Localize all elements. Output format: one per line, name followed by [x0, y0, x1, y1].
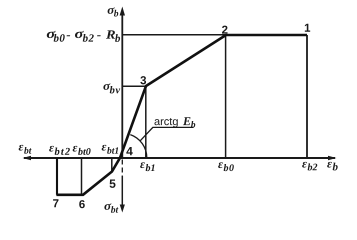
label epsilon_bt1 — [102, 145, 119, 154]
label sigma_b0 = sigma_b2 = R_b (ultimate strength level) — [47, 30, 120, 42]
x-axis epsilon with left and right arrows — [23, 156, 337, 161]
point label 1 — [305, 24, 310, 32]
guide line R_b level from axis to point 2 — [122, 34, 226, 36]
leader line from arctg E_b label to the arc — [140, 127, 193, 140]
arc arctg E_b around the origin — [130, 135, 147, 158]
label epsilon_bt0 — [73, 146, 91, 155]
label epsilon_b2 (below axis, under point 1) — [302, 162, 317, 171]
label epsilon_bt (left end of strain axis) — [19, 145, 32, 154]
label epsilon_bt2 — [49, 146, 70, 155]
label sigma_bv (elastic limit level) — [103, 83, 120, 93]
label epsilon_b (right end of strain axis) — [327, 162, 338, 171]
point label 4 — [126, 147, 132, 155]
guide vertical eps_bt0 from axis down to point 6 — [81, 158, 83, 195]
label arctg E_b (initial modulus angle) — [154, 117, 195, 127]
point label 3 — [140, 76, 146, 84]
label sigma_b (top of stress axis) — [108, 7, 119, 16]
guide line sigma_bv level from axis to point 3 — [122, 85, 146, 87]
guide vertical eps_b1 from point 3 down to axis — [145, 86, 147, 158]
guide vertical eps_bt1 from axis down to point 5 — [111, 158, 113, 172]
point label 6 — [79, 200, 85, 208]
label epsilon_b0 (below axis, under point 2) — [218, 162, 234, 171]
main stress-strain curve through points 1-2-3-4-5-6-7 — [56, 35, 307, 195]
point label 7 — [53, 199, 58, 207]
curve vertical segment at eps_bt2 from point 7 up to axis — [56, 158, 58, 195]
point label 2 — [222, 26, 228, 34]
y-axis sigma_b (positive part) — [120, 7, 125, 159]
y-axis sigma_bt (negative part, dashed near origin) — [120, 160, 125, 213]
guide vertical eps_b2 from point 1 down to axis — [306, 35, 308, 158]
point label 5 — [110, 180, 116, 188]
label sigma_bt (bottom of stress axis) — [104, 203, 118, 213]
label epsilon_b1 (below axis, under point 3) — [140, 162, 154, 171]
guide vertical eps_b0 from point 2 down to axis — [225, 35, 227, 158]
